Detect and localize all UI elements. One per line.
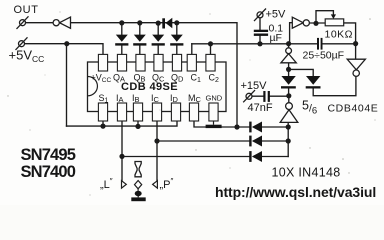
op-amp U1c inverter pointing up: [281, 48, 296, 63]
diode D2 under QB: [133, 35, 146, 46]
wire row 2 from IC column: [157, 140, 249, 142]
op-amp U1b inverter before pot: [292, 17, 309, 28]
wire Mc pin to row 1: [194, 121, 249, 127]
pin box QB: [136, 54, 145, 71]
svg-text:+VCC: +VCC: [91, 73, 112, 85]
potentiometer R1 10K: [325, 14, 344, 25]
op-amp U1a inverter at OUT: [53, 17, 70, 28]
wire branch to diode D6: [289, 69, 314, 76]
wire row 1 diode to node: [262, 126, 288, 128]
svg-text:5/6: 5/6: [302, 99, 317, 117]
junction: QA diode on top bus: [119, 20, 124, 25]
wire row 2 diode to node: [262, 140, 288, 142]
svg-text:IB: IB: [132, 93, 140, 104]
wire QA diode column: [121, 23, 123, 55]
svg-text:CDB404E: CDB404E: [328, 103, 379, 115]
junction: U1b input node: [286, 41, 291, 46]
pin box IC: [152, 103, 161, 121]
wire U1c triangle to diode node: [288, 63, 290, 70]
svg-text:SN7495: SN7495: [21, 146, 76, 164]
IC left edge arc: [88, 77, 98, 96]
pin box Mc: [189, 103, 198, 121]
svg-text:10X IN4148: 10X IN4148: [272, 166, 341, 180]
wire node to inverter U1f input: [355, 44, 357, 59]
svg-text:+5V: +5V: [266, 9, 287, 21]
paddle contact diamond: [135, 181, 142, 189]
junction: IB on bottom bus: [135, 124, 140, 129]
svg-text:+15V: +15V: [241, 80, 268, 92]
junction: C2 on RC net: [208, 41, 213, 46]
wire pot right side down: [344, 23, 356, 44]
diode D3 under QC: [152, 35, 165, 46]
junction: S1 on bottom bus: [100, 124, 105, 129]
svg-text:„P″: „P″: [160, 177, 174, 191]
diode D7 row 1: [249, 122, 262, 133]
pin box QA: [117, 54, 126, 71]
wire OUT to inverter U1a: [26, 22, 53, 24]
pin box ID: [171, 103, 180, 121]
contact L arrow: [122, 181, 127, 188]
wire row 3 from IA column: [122, 156, 249, 158]
svg-text:MC: MC: [188, 93, 202, 104]
wire diode D5 top stub: [288, 69, 290, 76]
diode D8 row 2: [249, 136, 262, 147]
wire stub IB to bus: [137, 121, 139, 126]
diode D9 series in top bus: [162, 18, 172, 29]
diode D4 under QD: [170, 35, 183, 46]
wire bottom bus: [67, 121, 178, 126]
op-amp U1e inverter pointing up lower: [280, 103, 298, 123]
wire 47nF to node: [252, 95, 289, 97]
svg-text:S1: S1: [99, 93, 109, 105]
svg-text:ID: ID: [170, 93, 179, 104]
svg-text:+5VCC: +5VCC: [9, 48, 45, 65]
svg-text:25÷50µF: 25÷50µF: [303, 50, 345, 62]
junction: diode split node: [286, 67, 291, 72]
wire node to inverter U1e bubble: [288, 96, 290, 103]
diode D1 under QA: [115, 35, 128, 46]
pin box C1: [187, 54, 196, 71]
junction: 47nF node: [286, 93, 291, 98]
svg-text:10KΩ: 10KΩ: [325, 29, 354, 41]
svg-text:C2: C2: [209, 73, 220, 85]
wire inverter U1e output column: [287, 123, 289, 157]
wire +5Vcc rail to Vcc pin: [25, 44, 103, 55]
wire top bus from U1a output to feedback corner: [71, 23, 238, 127]
svg-text:GND: GND: [206, 94, 223, 103]
wire 0.1uF stubs: [259, 18, 261, 44]
diode D5 in timing column: [281, 76, 296, 89]
pin box QD: [172, 54, 181, 71]
pin box S1: [98, 103, 107, 121]
diode D6 in timing column: [306, 76, 321, 89]
wire inverter U1b output to pot: [310, 22, 326, 24]
junction: pot left and wiper: [313, 21, 318, 26]
svg-text:C1: C1: [191, 73, 202, 85]
pin box IA: [117, 103, 126, 121]
wire IC pin down to P contact: [156, 121, 158, 181]
ground under paddle: [131, 197, 145, 201]
junction: 0.1uF on RC net: [257, 41, 262, 46]
junction: QB diode on top bus: [137, 20, 142, 25]
terminal +5Vcc: [16, 37, 28, 50]
pin box GND: [209, 103, 218, 121]
wire inverter U1b input: [290, 23, 293, 44]
pin box QC: [154, 54, 163, 71]
diode D10 row 3: [249, 151, 262, 162]
wire IA pin down to L contact: [121, 121, 123, 181]
wire QC diode column: [157, 23, 159, 54]
pin box C2: [206, 54, 215, 71]
svg-text:http://www.qsl.net/va3iul: http://www.qsl.net/va3iul: [215, 184, 376, 200]
svg-text:SN7400: SN7400: [21, 163, 76, 181]
paddle stubs: [137, 189, 139, 198]
junction: right RC node: [353, 41, 358, 46]
wire stub S1 to bus: [102, 121, 104, 126]
svg-text:CDB 49SE: CDB 49SE: [121, 81, 178, 93]
wire left vertical from +5Vcc junction down to bottom bus: [66, 44, 68, 126]
terminal OUT: [17, 16, 29, 29]
junction: row 1 right node: [286, 124, 291, 129]
speckles: [7, 11, 375, 195]
svg-text:OUT: OUT: [14, 4, 39, 16]
wire pot wiper feedback: [316, 11, 333, 24]
wire node to inverter U1c bubble: [288, 44, 290, 48]
paddle pivot: [135, 191, 142, 196]
svg-text:47nF: 47nF: [248, 102, 273, 114]
wire diode D6 bottom to U1f output: [313, 77, 356, 96]
wire QD diode column: [176, 23, 178, 55]
pin box IB: [133, 103, 142, 121]
wire RC net right of electrolytic: [323, 43, 356, 45]
wire C1 pin up to RC net: [191, 44, 193, 55]
wire QB diode column: [139, 23, 141, 55]
junction: row 2 right node: [286, 138, 291, 143]
wire RC net horizontal: [192, 43, 317, 45]
svg-text:µF: µF: [270, 32, 282, 44]
junction: feedback joins row 1: [234, 124, 239, 129]
wire row 3 diode to node: [262, 156, 288, 158]
terminal +5V: [254, 9, 266, 22]
junction: QC diode on top bus: [156, 21, 161, 26]
paddle lever: [135, 162, 141, 177]
wire C2 pin up to RC net: [210, 44, 212, 55]
svg-text:„L″: „L″: [100, 177, 113, 191]
svg-text:IA: IA: [116, 93, 124, 104]
wire diode D5 bottom to node: [288, 88, 290, 95]
IC U2 CDB495E body: [88, 62, 227, 112]
capacitor 47nF: [263, 91, 270, 102]
junction: row 3 at IA column: [119, 154, 124, 159]
junction: QD diode after series diode: [174, 20, 179, 25]
junction: +5Vcc split: [64, 41, 69, 46]
svg-text:IC: IC: [151, 93, 160, 104]
ground under GND pin: [206, 121, 222, 128]
capacitor 25-50uF electrolytic: [317, 38, 323, 50]
contact P arrow: [153, 181, 158, 188]
pin box Vcc: [98, 54, 107, 71]
op-amp U1f inverter pointing down: [347, 59, 365, 76]
capacitor 0.1uF: [254, 30, 268, 36]
junction: row 2 at IC column: [154, 138, 159, 143]
terminal +15V: [243, 90, 255, 102]
